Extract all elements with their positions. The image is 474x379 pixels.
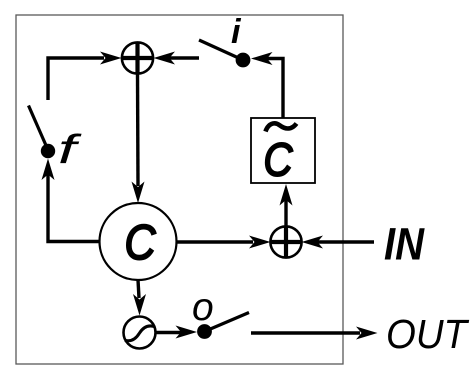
- add node S2 (right plus): [270, 226, 301, 257]
- wire: cell C down to output squashing: [138, 280, 139, 298]
- arrowhead into input adder from left: [249, 236, 271, 249]
- arrowhead into input adder from right: [302, 236, 324, 249]
- svg-text:o: o: [192, 286, 214, 329]
- block C-tilde (input squashing g): [251, 118, 315, 183]
- arrowhead into output switch dot: [176, 326, 198, 339]
- wire: forget switch up to top adder: [48, 58, 104, 100]
- wire: from C-tilde box up to switch i: [265, 59, 283, 119]
- wire: IN into input adder: [316, 240, 374, 243]
- node i (switch pivot dot): [236, 53, 251, 68]
- wire: top adder down into cell C: [136, 72, 140, 186]
- sigmoid curve glyph: [125, 326, 154, 341]
- node f (switch pivot dot): [41, 144, 55, 158]
- arrowhead into C-tilde box bottom: [280, 184, 293, 206]
- wire: left recurrent path elbow (C to forget switch): [48, 172, 100, 242]
- svg-text:OUT: OUT: [386, 311, 470, 357]
- wire: squashing to output switch: [156, 331, 181, 334]
- svg-text:i: i: [231, 13, 242, 51]
- label C-tilde: tilde stroke: [266, 123, 297, 131]
- outer cell box: [16, 15, 343, 364]
- output squashing node h (sigmoid circle): [124, 317, 156, 349]
- svg-text:C: C: [125, 216, 157, 270]
- wire: input adder up to C-tilde box: [284, 200, 287, 228]
- svg-text:IN: IN: [384, 219, 425, 270]
- svg-text:f: f: [58, 126, 82, 172]
- switch f arm: [29, 106, 49, 151]
- node o (switch pivot dot): [197, 324, 212, 339]
- wire: OUT line: [251, 331, 360, 334]
- wire: input-gate stub from top adder to switch i: [168, 56, 199, 59]
- arrowhead OUT: [356, 327, 378, 340]
- arrowhead into forget switch node: [42, 159, 55, 181]
- switch i arm: [199, 40, 243, 60]
- arrowhead into switch i dot: [251, 52, 273, 65]
- arrowhead into cell C top: [132, 182, 145, 204]
- cell state node C (big circle): [100, 203, 177, 280]
- arrowhead into top adder from left: [100, 52, 122, 65]
- arrowhead into top adder from right: [154, 52, 176, 65]
- svg-text:C: C: [264, 134, 294, 186]
- add node S1 (top plus): [122, 42, 153, 73]
- wire: cell C right to input adder S2: [177, 240, 254, 243]
- switch o arm: [205, 313, 250, 332]
- arrowhead into output squashing circle: [133, 294, 146, 316]
